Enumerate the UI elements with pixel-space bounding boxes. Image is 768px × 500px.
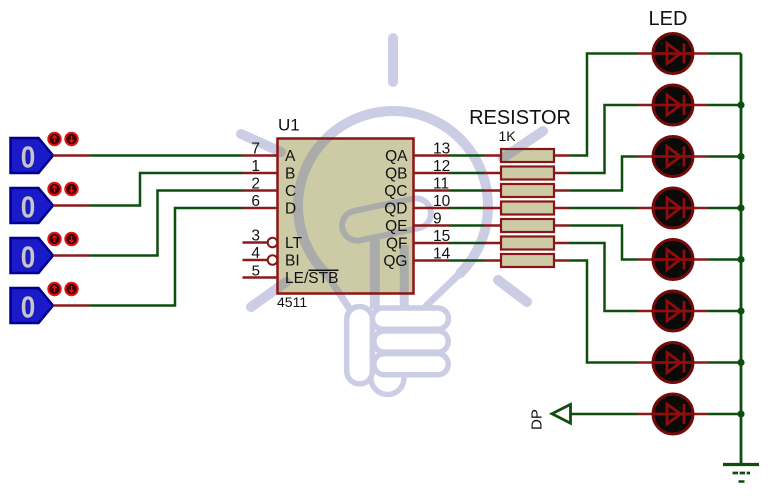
op-amp U1 body border <box>278 139 414 294</box>
LED D2 <box>638 104 652 107</box>
wire LED3 to bus <box>694 155 708 158</box>
junction dot <box>737 307 744 314</box>
svg-text:B: B <box>285 165 295 182</box>
wire DP to LED8 <box>570 413 638 416</box>
wire QG to R7 <box>450 259 485 262</box>
resistor R4 border <box>484 207 501 210</box>
resistor R3 border <box>484 189 501 192</box>
logicstate input 1 <box>11 138 54 173</box>
pin 3 LT <box>243 241 268 244</box>
pin 2 C <box>243 189 278 192</box>
junction dot <box>737 410 744 417</box>
svg-text:QD: QD <box>384 200 407 217</box>
wire cathode bus <box>740 54 743 465</box>
svg-text:A: A <box>285 148 296 165</box>
pin 4 BI <box>243 259 268 262</box>
wire LED4 to bus <box>694 207 708 210</box>
svg-text:DP: DP <box>529 409 546 430</box>
svg-text:4: 4 <box>251 245 260 262</box>
pin 6 D <box>243 207 278 210</box>
svg-text:15: 15 <box>433 228 450 245</box>
LED D5 <box>638 258 652 261</box>
button down input 1 <box>65 133 77 145</box>
resistor R2 <box>501 167 554 180</box>
wire input2 to pin B <box>90 173 243 206</box>
resistor R7 <box>501 254 554 267</box>
wire QE to R5 <box>450 224 485 227</box>
svg-text:QC: QC <box>384 183 407 200</box>
svg-text:RESISTOR: RESISTOR <box>469 107 571 129</box>
junction dot <box>737 204 744 211</box>
pin 11 QC <box>414 189 450 192</box>
LED D8 <box>638 413 652 416</box>
LED D6 <box>638 310 652 313</box>
watermark lightbulb logo <box>241 38 543 395</box>
svg-text:7: 7 <box>251 141 260 158</box>
wire input 3 stub <box>53 254 90 257</box>
svg-text:LT: LT <box>285 235 302 252</box>
wire LED2 to bus <box>694 104 708 107</box>
wire QA to R1 <box>450 154 485 157</box>
pin 7 A <box>243 154 278 157</box>
resistor R5 <box>501 219 554 232</box>
button up input 2 <box>48 183 60 195</box>
pin 10 QD <box>414 207 450 210</box>
wire input 4 stub <box>53 304 90 307</box>
button up input 4 <box>48 283 60 295</box>
pin 13 QA <box>414 154 450 157</box>
svg-text:11: 11 <box>433 176 449 193</box>
wire R5 to LED5 <box>570 226 639 260</box>
junction dot <box>737 256 744 263</box>
svg-text:0: 0 <box>21 240 36 275</box>
pin 15 QF <box>414 242 450 245</box>
LED D7 <box>638 361 652 364</box>
resistor R4 <box>501 202 554 215</box>
op-amp U1 <box>278 139 414 294</box>
svg-text:10: 10 <box>433 193 451 210</box>
LED D4 <box>638 207 652 210</box>
junction dot <box>737 153 744 160</box>
wire input4 to pin D <box>90 208 243 306</box>
svg-text:D: D <box>285 200 296 217</box>
pin 14 QG <box>414 259 450 262</box>
svg-text:LED: LED <box>649 8 688 30</box>
svg-text:QE: QE <box>385 218 407 235</box>
logicstate input 2 <box>11 188 54 223</box>
wire QF to R6 <box>450 242 485 245</box>
logicstate input 3 <box>11 238 54 273</box>
junction dot <box>737 359 744 366</box>
svg-text:6: 6 <box>251 193 260 210</box>
svg-text:C: C <box>285 183 296 200</box>
wire QB to R2 <box>450 172 485 175</box>
wire input3 to pin C <box>90 191 243 256</box>
svg-text:0: 0 <box>21 290 36 325</box>
pin 12 QB <box>414 172 450 175</box>
svg-text:LE/STB: LE/STB <box>285 270 338 287</box>
svg-text:9: 9 <box>433 211 442 228</box>
button down input 4 <box>65 283 77 295</box>
svg-text:QB: QB <box>385 165 407 182</box>
wire R6 to LED6 <box>570 243 639 311</box>
wire LED6 to bus <box>694 310 708 313</box>
logicstate input 4 <box>11 288 54 323</box>
LED D1 <box>638 52 652 55</box>
resistor R3 <box>501 184 554 197</box>
wire input 1 stub <box>53 154 90 157</box>
resistor R1 <box>501 149 554 162</box>
wire R2 to LED2 <box>570 105 639 173</box>
node DP terminal <box>552 404 571 423</box>
wire LED7 to bus <box>694 361 708 364</box>
svg-text:4511: 4511 <box>277 294 307 310</box>
ground <box>723 463 759 466</box>
svg-text:BI: BI <box>285 252 300 269</box>
svg-text:1: 1 <box>251 158 260 175</box>
wire LED5 to bus <box>694 258 708 261</box>
pin 9 QE <box>414 224 450 227</box>
wire input1 to pin A <box>90 154 243 157</box>
wire LED1 to bus <box>694 52 708 55</box>
wire LED8 to bus <box>694 413 708 416</box>
button down input 2 <box>65 183 77 195</box>
svg-text:QA: QA <box>385 148 408 165</box>
resistor R7 border <box>484 259 501 262</box>
svg-text:2: 2 <box>251 176 260 193</box>
wire QC to R3 <box>450 189 485 192</box>
svg-text:5: 5 <box>252 263 260 280</box>
button down input 3 <box>65 233 77 245</box>
wire R1 to LED1 <box>570 54 639 156</box>
svg-text:U1: U1 <box>278 116 300 135</box>
pin 5 LE/STB <box>243 276 278 279</box>
wire R7 to LED7 <box>570 261 639 363</box>
svg-text:12: 12 <box>433 158 450 175</box>
svg-text:3: 3 <box>251 228 260 245</box>
LED D3 <box>638 155 652 158</box>
button up input 3 <box>48 233 60 245</box>
svg-text:QG: QG <box>383 253 407 270</box>
resistor R2 border <box>484 172 501 175</box>
wire R4 to LED4 <box>570 207 639 210</box>
junction dot <box>737 101 744 108</box>
svg-text:1K: 1K <box>498 128 516 144</box>
pin 1 B <box>243 172 278 175</box>
svg-text:0: 0 <box>21 140 36 175</box>
wire QD to R4 <box>450 207 485 210</box>
wire input 2 stub <box>53 204 90 207</box>
button up input 1 <box>48 133 60 145</box>
resistor R6 border <box>484 242 501 245</box>
svg-text:QF: QF <box>386 235 408 252</box>
svg-text:14: 14 <box>433 246 451 263</box>
resistor R5 border <box>484 224 501 227</box>
svg-text:0: 0 <box>21 190 36 225</box>
wire R3 to LED3 <box>570 157 639 191</box>
resistor R6 <box>501 237 554 250</box>
svg-text:13: 13 <box>433 141 450 158</box>
resistor R1 border <box>484 154 501 157</box>
